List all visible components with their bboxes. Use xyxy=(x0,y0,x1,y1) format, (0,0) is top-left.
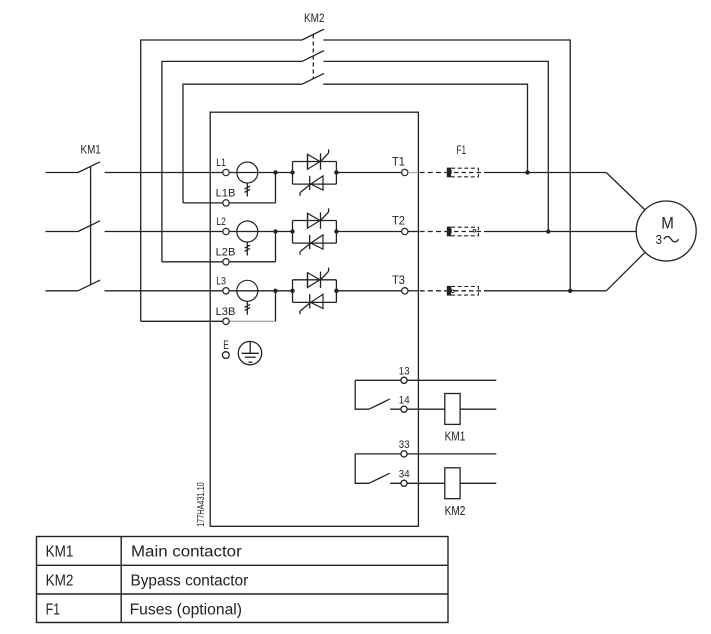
svg-text:KM1: KM1 xyxy=(445,430,466,444)
svg-text:E: E xyxy=(223,340,229,352)
svg-text:F1: F1 xyxy=(457,143,467,157)
svg-text:T2: T2 xyxy=(392,215,405,228)
svg-text:14: 14 xyxy=(399,394,410,406)
svg-text:L3B: L3B xyxy=(216,306,236,318)
svg-text:T1: T1 xyxy=(392,156,405,169)
svg-text:KM2: KM2 xyxy=(445,504,466,518)
svg-text:M: M xyxy=(661,214,674,233)
svg-text:KM1: KM1 xyxy=(46,544,74,561)
svg-text:Main contactor: Main contactor xyxy=(131,544,242,561)
svg-text:L3: L3 xyxy=(216,276,226,288)
svg-text:Bypass contactor: Bypass contactor xyxy=(131,573,249,590)
svg-text:34: 34 xyxy=(399,468,410,480)
svg-text:KM2: KM2 xyxy=(304,11,325,25)
svg-text:Fuses (optional): Fuses (optional) xyxy=(130,601,242,618)
svg-text:F1: F1 xyxy=(46,601,61,618)
svg-text:KM1: KM1 xyxy=(81,143,101,157)
svg-text:L1B: L1B xyxy=(216,188,236,200)
svg-text:33: 33 xyxy=(399,439,410,451)
svg-text:T3: T3 xyxy=(392,274,405,287)
svg-text:KM2: KM2 xyxy=(46,573,74,590)
svg-text:L2B: L2B xyxy=(216,247,236,259)
svg-text:L2: L2 xyxy=(216,216,226,228)
svg-text:L1: L1 xyxy=(216,157,226,169)
svg-text:3: 3 xyxy=(656,233,663,247)
svg-text:177HA431.10: 177HA431.10 xyxy=(196,482,207,527)
svg-text:13: 13 xyxy=(399,365,410,377)
